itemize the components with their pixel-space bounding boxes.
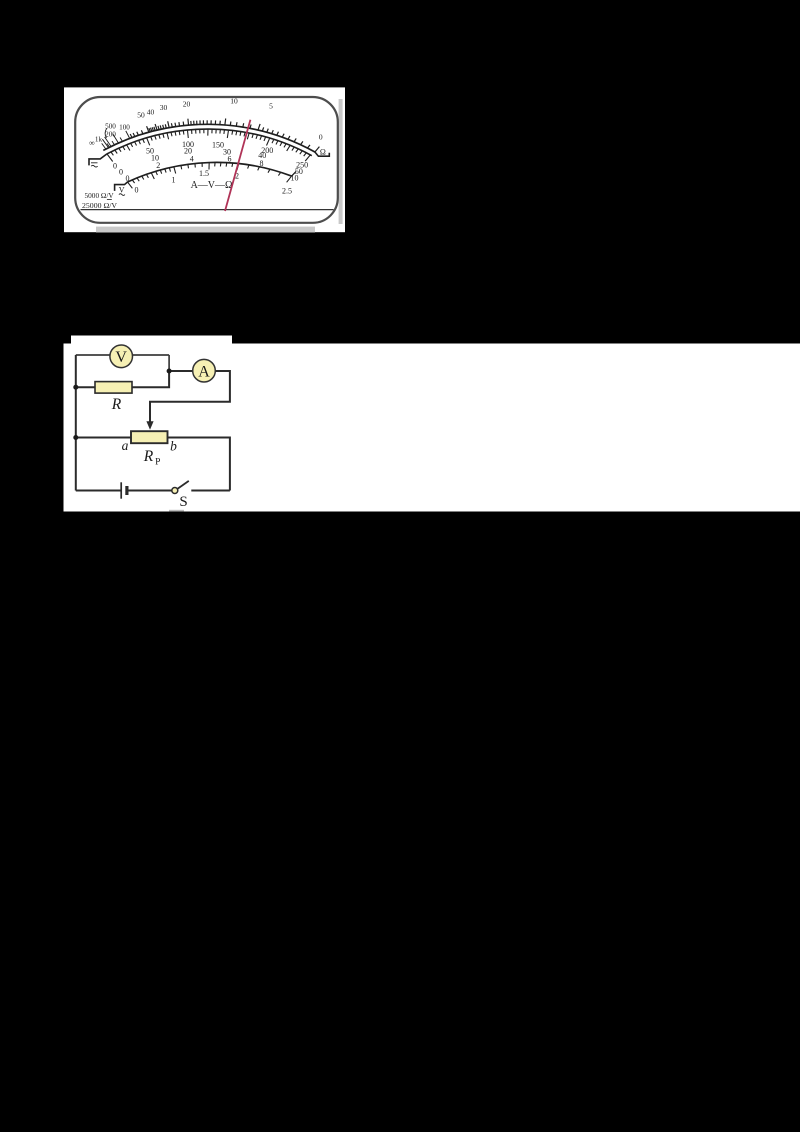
paren mark before 200 (105, 128, 107, 138)
svg-text:200: 200 (105, 130, 116, 138)
svg-text:30: 30 (160, 103, 168, 112)
resistor R (95, 382, 132, 394)
svg-text:1: 1 (172, 175, 176, 184)
scale right terminal hook (315, 152, 329, 156)
ac scale left terminal bracket (115, 182, 128, 191)
svg-text:S: S (179, 494, 187, 510)
wire ammeter to right bend (150, 371, 230, 423)
svg-text:A: A (198, 363, 210, 380)
ac scale arc (128, 162, 292, 182)
wire rheostat right down to bottom (168, 438, 230, 491)
battery short plate (125, 486, 128, 495)
ac V symbol tilde (119, 194, 125, 196)
wire R right to junction (132, 371, 169, 387)
svg-text:8: 8 (260, 159, 264, 168)
svg-text:0: 0 (119, 167, 123, 176)
meter needle (225, 120, 250, 211)
circuit image white panel (64, 344, 800, 512)
dc symbol (91, 163, 98, 167)
svg-text:V: V (115, 349, 127, 366)
circuit image white strip (71, 336, 232, 344)
svg-text:0: 0 (135, 185, 139, 194)
meter image white panel (64, 87, 345, 232)
dc scale ticks (107, 129, 311, 162)
voltmeter V (110, 345, 133, 368)
node dot left lower (73, 435, 78, 440)
svg-text:100: 100 (119, 123, 130, 131)
scale left terminal bracket (89, 154, 107, 165)
svg-text:P: P (155, 458, 160, 468)
wire bottom left to battery (76, 490, 121, 492)
svg-text:a: a (122, 438, 129, 453)
svg-text:5000 Ω/V: 5000 Ω/V (85, 191, 115, 200)
svg-text:500: 500 (105, 123, 116, 131)
svg-text:10: 10 (291, 173, 299, 182)
ohm scale ticks (130, 119, 319, 153)
meter bottom shadow (96, 227, 315, 233)
svg-text:1k: 1k (95, 135, 103, 143)
svg-text:0: 0 (113, 161, 117, 170)
svg-text:1.5: 1.5 (199, 169, 209, 178)
ohm scale outer arc (103, 124, 315, 152)
svg-text:V: V (119, 186, 125, 195)
ammeter A (193, 359, 216, 382)
svg-text:25000 Ω/V: 25000 Ω/V (82, 201, 117, 210)
ac scale ticks (127, 162, 292, 188)
svg-text:b: b (170, 439, 177, 454)
svg-text:A—V—Ω: A—V—Ω (191, 180, 233, 191)
wire junction to ammeter (169, 370, 193, 372)
svg-text:6: 6 (228, 155, 232, 164)
wire node to R left (76, 386, 95, 388)
svg-text:50: 50 (137, 110, 145, 119)
ac scale right end tick (292, 171, 297, 176)
wire battery to switch (127, 490, 172, 492)
svg-text:20: 20 (183, 99, 191, 108)
svg-text:R: R (143, 448, 154, 465)
switch lever (177, 481, 188, 489)
svg-text:10: 10 (230, 96, 238, 105)
wire rheostat left (76, 437, 131, 439)
svg-text:4: 4 (190, 155, 194, 164)
meter bezel rounded frame (75, 97, 338, 223)
svg-text:5: 5 (269, 101, 273, 110)
switch pivot (172, 488, 178, 494)
svg-text:40: 40 (147, 107, 155, 116)
slider arrow head (146, 421, 153, 430)
meter right shadow (339, 99, 343, 224)
svg-text:0: 0 (126, 174, 130, 183)
svg-text:2: 2 (156, 161, 160, 170)
svg-text:R: R (111, 396, 122, 413)
ohm scale left cluster leader ticks (102, 131, 130, 150)
wire V branch right vertical (168, 355, 170, 371)
node dot junction (167, 369, 172, 374)
wire switch to right (191, 490, 230, 492)
svg-text:0: 0 (319, 133, 323, 142)
watermark remnant (169, 510, 184, 512)
wire top V branch (76, 354, 169, 356)
svg-text:2.5: 2.5 (282, 186, 292, 195)
ohm scale inner arc (107, 129, 312, 156)
underline under V (107, 199, 112, 201)
wire left vertical (75, 355, 77, 491)
rheostat RP (131, 431, 168, 443)
svg-text:Ω: Ω (320, 148, 326, 157)
node dot left upper (73, 385, 78, 390)
meter scale baseline (81, 209, 334, 211)
battery long plate (120, 482, 122, 498)
